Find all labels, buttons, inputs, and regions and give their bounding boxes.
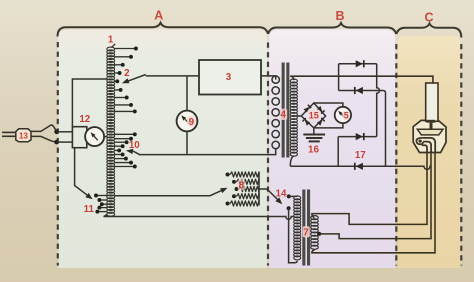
svg-text:4: 4 (280, 110, 286, 121)
brace for zone A (58, 23, 269, 37)
brace for zone C (396, 24, 461, 38)
anode target plate (417, 129, 443, 135)
mains plug 13 prongs (2, 131, 16, 133)
svg-text:1: 1 (108, 35, 114, 46)
wire: bottom mains terminal to switch 12 (57, 141, 73, 143)
svg-text:7: 7 (303, 227, 309, 238)
label 4 halo (280, 109, 287, 120)
wire: filament secondary bottom to tube filament (312, 153, 435, 253)
switch box 12 (72, 127, 86, 148)
label 5 (342, 110, 350, 120)
dashed border right of zone C (460, 44, 462, 266)
x-ray tube anode stem (426, 83, 438, 121)
rectifier left bus (D1-D2) (338, 64, 340, 91)
line voltage meter 12 (85, 127, 104, 146)
autotransformer top lead (111, 44, 115, 48)
voltmeter 9 branch wire top (186, 76, 188, 111)
rectifier left bus (D3-D4) (337, 137, 339, 167)
cathode inner conductor (422, 145, 427, 152)
anode stub (430, 123, 433, 130)
wire: HT secondary top to x-ray tube anode (290, 76, 433, 83)
HT transformer 4 secondary winding (290, 79, 297, 156)
wire: selector 2 to timer 3 (146, 75, 199, 77)
selector arrow 10 (133, 151, 140, 155)
selector contact A (7 primary top) (287, 194, 291, 198)
cathode filament curl (416, 138, 423, 144)
wire: selector 10 rail to HT primary bottom (140, 148, 276, 154)
dashed border left of zone A (57, 42, 59, 266)
voltmeter 9 branch wire bottom (186, 131, 188, 154)
meter 9 needle (185, 119, 190, 124)
label 15 halo (308, 110, 320, 121)
diode D3 (356, 133, 363, 140)
wire: top mains terminal to switch 12 (57, 131, 73, 133)
svg-text:16: 16 (308, 144, 319, 155)
wire: HT secondary centre tap to bridge 15 (297, 115, 302, 117)
wire: switch 12 down to selector 11 (75, 148, 88, 196)
cathode outer conductor (422, 138, 435, 153)
selector arrow 11 (85, 193, 92, 199)
wire: filament secondary top to tube filament (312, 153, 427, 225)
svg-text:9: 9 (189, 117, 195, 128)
autotransformer upper taps (114, 47, 138, 114)
svg-text:A: A (154, 9, 163, 23)
selector contact B (287, 206, 291, 210)
rectifier D4 row wire to cathode circuit (with hop) (290, 166, 431, 169)
wire: timer 3 to HT transformer primary (261, 76, 276, 80)
diode D1 (356, 60, 363, 67)
HT secondary bottom lead (290, 156, 294, 166)
cathode middle conductor (423, 142, 431, 153)
rectifier D2 row wire (339, 91, 386, 167)
mains terminal node top (54, 130, 59, 135)
x-ray tube bulb envelope (413, 120, 446, 152)
svg-text:3: 3 (226, 72, 232, 83)
zone C background (x-ray tube) (398, 36, 461, 269)
svg-text:2: 2 (124, 68, 130, 79)
HT secondary top lead (290, 76, 294, 80)
filament transformer 7 core (302, 190, 310, 266)
svg-text:14: 14 (276, 189, 287, 200)
voltmeter 9 (177, 111, 198, 132)
dashed border between zone A and B (267, 43, 269, 266)
svg-text:17: 17 (355, 150, 366, 161)
svg-text:10: 10 (129, 140, 140, 151)
mains terminal node bottom (54, 140, 59, 145)
wire: rheostat 8 output to selector 14 (259, 189, 278, 200)
filament rheostat 8 resistor bank (226, 172, 259, 206)
rectifier inner bus with hop over D2 (377, 64, 380, 137)
diode D2 (356, 87, 363, 94)
wire: centre tap to cathode (joins rectifier output) (319, 153, 431, 239)
anode stem bottom cap (427, 120, 436, 123)
wire: autotransformer bottom rail to filament transformer (103, 215, 294, 220)
svg-text:11: 11 (84, 204, 95, 215)
mains plug 13 body (16, 129, 31, 142)
svg-text:13: 13 (19, 131, 29, 140)
meter 12 needle (93, 135, 97, 140)
zone B background (high-voltage circuit) (269, 30, 395, 269)
HT transformer 4 core (282, 63, 290, 158)
wire: bridge 15 top to mA meter 5 (314, 103, 343, 107)
dashed border between zone B and C (395, 44, 397, 266)
autotransformer 1 winding (107, 47, 115, 216)
wire: bridge 15 bottom to mA meter 5 (314, 123, 343, 128)
filament transformer 7 primary winding (294, 196, 301, 260)
svg-text:12: 12 (79, 114, 90, 125)
svg-text:B: B (335, 9, 344, 23)
brace for zone B (268, 23, 396, 34)
mA meter 5 (335, 107, 351, 123)
svg-text:C: C (424, 11, 433, 25)
wire: contact B down to filament primary bottom (289, 208, 298, 262)
filament transformer 7 secondary winding (311, 216, 319, 250)
rectifier D1 row wire (339, 63, 377, 65)
meter 5 needle (341, 114, 344, 117)
rectifier D3 row wire (338, 136, 377, 138)
timer box 3 (199, 60, 261, 95)
wire: plug to bottom mains terminal (31, 136, 57, 142)
wire: meter 12 to autotransformer (104, 136, 107, 138)
autotransformer lower taps (114, 132, 137, 168)
label 7 halo (303, 226, 310, 237)
selector arrow into rheostat 8 (220, 188, 228, 193)
wire: mains feed up to autotransformer top tap (72, 79, 107, 127)
label 8 halo (238, 179, 245, 190)
selector arrow 14 (275, 197, 282, 204)
ground 16 (303, 128, 325, 141)
bridge 15 diodes (303, 105, 325, 126)
svg-text:5: 5 (344, 111, 349, 121)
selector arrow 2 (kV major selector) (127, 75, 146, 82)
label 9 (187, 115, 196, 127)
HT transformer 4 primary winding (272, 76, 279, 149)
autotransformer left taps (11) (94, 194, 107, 214)
diode D4 (356, 163, 363, 170)
wire: plug to top mains terminal (31, 125, 57, 131)
svg-text:8: 8 (239, 180, 245, 191)
svg-text:15: 15 (309, 110, 319, 120)
wire: autotransformer tap to rheostat selector (115, 191, 222, 196)
rectifier bridge 15 diamond (301, 103, 325, 128)
filament secondary centre tap node (317, 232, 321, 236)
zone A background (low-voltage circuit) (58, 30, 267, 269)
